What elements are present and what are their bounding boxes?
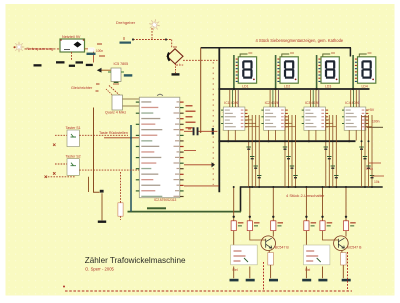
relay K2 bbox=[303, 245, 330, 265]
transistor Q1 bbox=[261, 236, 276, 251]
node: bundle junction on display bus bbox=[233, 88, 235, 90]
resistor group 2 R1 bbox=[304, 221, 309, 231]
svg-text:LD1: LD1 bbox=[242, 85, 248, 89]
svg-text:LD2: LD2 bbox=[284, 85, 290, 89]
node: rail left dot bbox=[63, 286, 65, 288]
ground group 2 bbox=[318, 279, 327, 282]
diode D3 bbox=[100, 190, 104, 193]
ground below sensor bbox=[172, 73, 180, 75]
node: sensor junctions bbox=[132, 38, 134, 40]
svg-text:R 4x: R 4x bbox=[366, 167, 373, 171]
ground bbox=[56, 61, 65, 63]
wire: psu ground dashed bbox=[71, 52, 73, 61]
svg-text:IC3 4026: IC3 4026 bbox=[305, 101, 319, 105]
diode D1 bbox=[109, 86, 120, 96]
wire: sensor line down along bus bbox=[212, 62, 214, 185]
wire: main vertical bus bbox=[218, 47, 220, 192]
diodes on cluster 2 bbox=[283, 146, 287, 148]
wire: IC4 output stubs bbox=[362, 116, 366, 118]
wire: common cathode hook LD3 bbox=[323, 54, 330, 57]
wire: bcd cluster 4 bbox=[361, 115, 363, 187]
wire: switch left dashed bbox=[55, 163, 67, 165]
wire: display link bundle IC2 bbox=[269, 90, 271, 107]
mcu pin rows bbox=[141, 101, 151, 102]
node: arrow cap bbox=[212, 162, 216, 167]
wire: driver group 1 feeds bbox=[233, 187, 235, 221]
wire: bcd cluster 1 bbox=[248, 115, 250, 187]
wire: IC1 bottom stubs bbox=[228, 130, 235, 140]
display LD1 bbox=[238, 57, 256, 83]
svg-text:4 Stück 2-Umschalter: 4 Stück 2-Umschalter bbox=[286, 193, 325, 198]
svg-text:IC2 AT90S2313: IC2 AT90S2313 bbox=[154, 198, 176, 202]
relay K1 bbox=[231, 245, 258, 265]
svg-text:Taste Rückstellen: Taste Rückstellen bbox=[99, 131, 128, 135]
node: bundle junction on display bus bbox=[274, 88, 276, 90]
svg-text:Netzspannung: Netzspannung bbox=[27, 46, 54, 51]
diode group 1 D bbox=[268, 253, 274, 266]
node: bundle junction on display bus bbox=[315, 88, 317, 90]
ground bbox=[34, 64, 42, 66]
capacitor C4 bbox=[120, 42, 132, 44]
resistor group 2 R3 bbox=[343, 221, 348, 231]
wire: output dashed 2 bbox=[347, 252, 349, 291]
resistor group 1 R3 bbox=[271, 221, 276, 231]
wire: sensor dashed bbox=[133, 28, 172, 49]
wire: common cathode hook LD1 bbox=[240, 54, 247, 57]
labels: display pins LD1 bbox=[236, 59, 238, 60]
wire: output dashed 1 bbox=[263, 262, 265, 291]
wire: supply drop left of mcu bbox=[94, 108, 100, 193]
wire: IC3 output stubs bbox=[325, 116, 327, 118]
wire: segment bundle LD4 bbox=[352, 55, 354, 89]
switch box Taster S1 bbox=[67, 130, 79, 147]
wire: common cathode hook LD2 bbox=[282, 54, 289, 57]
wire: common cathode hook LD4 bbox=[359, 54, 366, 57]
small marks near caps bbox=[97, 44, 105, 56]
svg-text:+5V: +5V bbox=[368, 108, 375, 112]
wire: counter bus horizontal bbox=[218, 140, 355, 142]
wire: switch S1 to reset line dashed bbox=[79, 134, 128, 136]
svg-text:BC547 B: BC547 B bbox=[275, 246, 290, 250]
wire: bottom rail dashed bbox=[65, 290, 352, 292]
regulator IC5 7805 bbox=[111, 68, 121, 82]
wire: switch left dashed bbox=[55, 134, 67, 136]
wire: psu out bbox=[85, 49, 94, 63]
resistor group 2 R2 bbox=[320, 221, 325, 231]
wire: switch S2 to mcu dashed bbox=[79, 169, 139, 171]
svg-text:IC2 4026: IC2 4026 bbox=[265, 101, 279, 105]
wire: base link group 2 bbox=[323, 231, 339, 240]
wire: clock line top horizontal bbox=[201, 47, 351, 49]
ground group 2 bbox=[302, 279, 311, 282]
wire: segment bundle LD1 bbox=[233, 55, 235, 89]
power supply module U5 bbox=[60, 39, 85, 52]
svg-text:Drehgeber: Drehgeber bbox=[116, 20, 136, 25]
wire: mcu bottom green stub bbox=[147, 207, 166, 209]
wire: to ground bbox=[101, 193, 103, 220]
svg-text:4 Stück Siebensegmentanzeigen,: 4 Stück Siebensegmentanzeigen, gem. Kath… bbox=[256, 38, 344, 43]
wire: base link group 1 bbox=[250, 231, 266, 240]
wire: mcu short stub bbox=[184, 150, 196, 152]
wire: display link bundle IC4 bbox=[350, 90, 352, 107]
wire: clock drop to display 4 bbox=[349, 48, 351, 57]
svg-text:100n: 100n bbox=[372, 120, 380, 124]
wire: mains dashed bbox=[25, 48, 61, 50]
svg-text:Gleichrichter: Gleichrichter bbox=[71, 86, 93, 90]
diodes on cluster 1 bbox=[247, 146, 251, 148]
wire: sensor output dashed bbox=[183, 59, 218, 61]
svg-text:LD3: LD3 bbox=[325, 85, 331, 89]
labels: bus pin marks bbox=[223, 113, 225, 131]
svg-text:a b c: a b c bbox=[176, 63, 184, 67]
resistor group 1 R1 bbox=[231, 221, 236, 231]
resistor group 1 R2 bbox=[247, 221, 252, 231]
wire: relay grounds group 1 bbox=[234, 267, 250, 279]
wire: right aux line bbox=[367, 126, 383, 128]
labels: display pins LD2 bbox=[277, 59, 279, 60]
wire: IC2 output stubs bbox=[284, 116, 286, 118]
svg-text:Taster S1: Taster S1 bbox=[66, 126, 81, 130]
display LD3 bbox=[321, 57, 339, 83]
svg-text:100n: 100n bbox=[96, 49, 103, 53]
wire: collector group 2 bbox=[345, 231, 347, 237]
ground group 2 bbox=[342, 279, 351, 282]
node: junctions on counter bus bbox=[227, 140, 229, 142]
wire: bcd cluster 2 bbox=[284, 115, 286, 187]
labels: display pins LD4 bbox=[355, 59, 357, 60]
svg-text:Netzteil 9V: Netzteil 9V bbox=[62, 35, 81, 39]
wire: driver bus vertical elbow bbox=[240, 186, 242, 211]
ground group 1 bbox=[230, 279, 239, 282]
capacitor C6 at bus bbox=[212, 128, 214, 135]
labels: mcu right pin names bbox=[186, 105, 193, 107]
counter IC4 4026 bbox=[344, 107, 366, 130]
wire: mcu to bus 2 bbox=[184, 185, 219, 187]
svg-text:Zähler Trafowickelmaschine: Zähler Trafowickelmaschine bbox=[85, 256, 186, 265]
wire: segment bundle LD2 bbox=[275, 55, 277, 89]
wire: resistor feed dashed bbox=[120, 172, 122, 203]
wire: IC1 output stubs bbox=[245, 116, 249, 118]
ground bbox=[76, 61, 84, 63]
connector: sensor star bbox=[149, 19, 160, 30]
node: feed junctions group 1 bbox=[233, 216, 235, 218]
ground bbox=[69, 65, 75, 67]
wire: lower-left dashed bbox=[45, 176, 76, 178]
crystal Q1 bbox=[112, 95, 123, 110]
ground group 1 bbox=[246, 279, 255, 282]
mcu IC2 box bbox=[139, 97, 180, 198]
wire: small brown stub bbox=[88, 177, 90, 192]
wire: green ground rail horizontal bbox=[128, 211, 242, 213]
diodes on cluster 3 bbox=[324, 146, 328, 148]
wire: resistor to relay group 2 bbox=[305, 231, 307, 245]
wire: IC4 bottom stubs bbox=[349, 130, 356, 140]
counter IC1 4026 bbox=[223, 107, 245, 130]
svg-text:10k: 10k bbox=[374, 180, 380, 184]
wire: relay grounds group 2 bbox=[306, 267, 322, 279]
wire: IC2 bottom stubs bbox=[269, 130, 276, 140]
wire: reset row bbox=[104, 137, 139, 139]
wire: mcu to bus 1 bbox=[184, 164, 213, 166]
wire: display bus horizontal bbox=[218, 88, 369, 90]
capacitor C2 bbox=[124, 74, 133, 76]
display LD2 bbox=[280, 57, 298, 83]
resistor R9 bbox=[118, 203, 123, 216]
wire: driver group 2 feeds bbox=[305, 187, 307, 221]
display LD4 bbox=[358, 57, 376, 83]
node: feed junctions group 2 bbox=[305, 216, 307, 218]
wire: driver bus horizontal bbox=[241, 186, 383, 188]
switch box Taster S2 bbox=[67, 159, 79, 176]
transistor Q2 bbox=[334, 236, 349, 251]
svg-text:IC5 7805: IC5 7805 bbox=[114, 62, 129, 66]
sensor B1 diamond bbox=[167, 49, 183, 64]
connector: mains plug star bbox=[14, 42, 24, 52]
marks near rectifier bbox=[96, 84, 100, 91]
svg-text:IC1 4026: IC1 4026 bbox=[224, 101, 238, 105]
wire: emitter down group 2 bbox=[342, 250, 343, 278]
diode group 2 D bbox=[341, 253, 347, 266]
svg-text:BC547 B: BC547 B bbox=[347, 246, 362, 250]
wire: teal reset line vertical bbox=[130, 125, 132, 212]
wire: IC3 bottom stubs bbox=[309, 130, 316, 140]
counter IC2 4026 bbox=[264, 107, 286, 130]
ground bbox=[98, 221, 106, 223]
wire: resistor to relay group 1 bbox=[233, 231, 235, 245]
wire: 9V arrow bbox=[99, 69, 111, 71]
wire: segment bundle LD3 bbox=[316, 55, 318, 89]
capacitor C1 bbox=[87, 53, 96, 55]
wire: collector group 1 bbox=[272, 231, 274, 237]
wire: bcd cluster 3 bbox=[325, 115, 327, 187]
svg-text:Taster S2: Taster S2 bbox=[66, 155, 81, 159]
svg-text:IC4 4026: IC4 4026 bbox=[345, 101, 359, 105]
node: bundle junction on display bus bbox=[352, 88, 354, 90]
wire: display link bundle IC3 bbox=[309, 90, 311, 107]
svg-text:Quarz 4 MHz: Quarz 4 MHz bbox=[105, 111, 126, 115]
diode D2 bbox=[106, 89, 115, 98]
wire: clock feed vertical brown bbox=[200, 48, 202, 133]
capacitor C5 electrolytic bbox=[193, 127, 195, 135]
counter IC3 4026 bbox=[304, 107, 326, 130]
diodes on cluster 4 bbox=[359, 146, 363, 148]
node: junctions on counter bus bbox=[348, 140, 350, 142]
ground bbox=[86, 64, 93, 66]
node: junctions on counter bus bbox=[308, 140, 310, 142]
wire: cap link bbox=[184, 130, 217, 132]
wire: emitter down group 1 bbox=[269, 250, 270, 278]
svg-text:LD4: LD4 bbox=[362, 85, 368, 89]
labels: display pins LD3 bbox=[318, 59, 320, 60]
mcu top mark bbox=[157, 94, 163, 96]
node: junctions on counter bus bbox=[268, 140, 270, 142]
wire: display link bundle IC1 bbox=[229, 90, 231, 107]
svg-text:O. Sperr - 2005: O. Sperr - 2005 bbox=[85, 266, 115, 271]
ground group 1 bbox=[269, 279, 278, 282]
